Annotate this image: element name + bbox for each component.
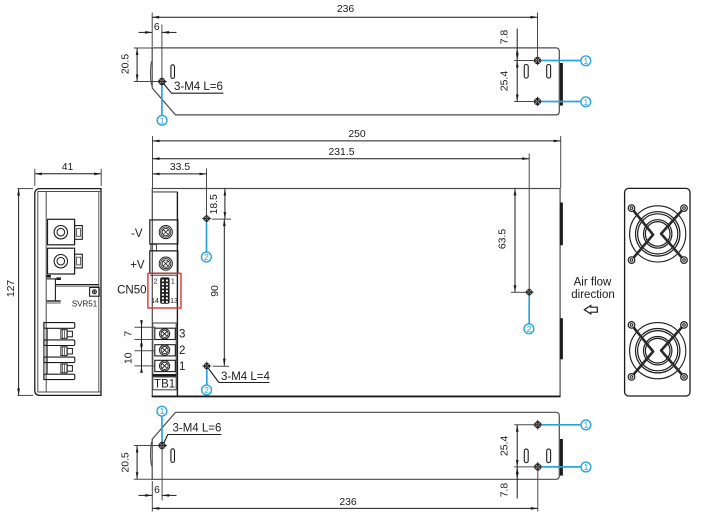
- svg-text:33.5: 33.5: [170, 162, 190, 173]
- main view: terminal column: [176, 192, 178, 396]
- svg-text:41: 41: [62, 162, 74, 173]
- callout 1 top-right upper: [542, 60, 582, 62]
- dim 236 top: [151, 13, 153, 48]
- label 3-M4 L=6 top: [164, 84, 224, 94]
- CN50 connector pins: [162, 280, 164, 282]
- dim 20.5 top: [134, 47, 152, 49]
- callout 1 top-left: [161, 86, 163, 116]
- svg-text:CN50: CN50: [117, 285, 146, 297]
- left view: inner wall lines: [37, 192, 39, 393]
- dim 7 (TB pitch): [135, 326, 156, 328]
- svg-text:-V: -V: [131, 228, 143, 240]
- svg-text:1: 1: [160, 406, 165, 416]
- dim 231.5: [528, 154, 530, 293]
- svg-text:236: 236: [339, 497, 357, 508]
- svg-text:1: 1: [584, 420, 589, 430]
- callout 1 bottom-left: [157, 406, 167, 416]
- svg-text:6: 6: [154, 485, 160, 496]
- main view: chassis outline: [152, 189, 560, 397]
- label 3-M4 L=4: [209, 369, 270, 383]
- svg-text:18.5: 18.5: [209, 194, 220, 214]
- left view: TB bolt 3: [61, 364, 67, 373]
- svg-text:direction: direction: [571, 289, 614, 301]
- svg-text:3-M4 L=6: 3-M4 L=6: [173, 423, 222, 435]
- left view: TB bolt 2: [61, 347, 67, 356]
- left view: outer case: [35, 189, 101, 396]
- svg-text:127: 127: [6, 280, 17, 298]
- svg-text:14: 14: [151, 298, 159, 305]
- left view: TB finger 2: [44, 340, 75, 346]
- left view: terminal 1 tab: [75, 226, 83, 240]
- svg-text:1: 1: [584, 462, 589, 472]
- svg-text:90: 90: [210, 285, 221, 297]
- top view: right side slots: [524, 65, 528, 79]
- left view: terminal mount dark marks: [46, 275, 51, 278]
- bottom view: dark flange right edge: [560, 439, 563, 476]
- svg-text:63.5: 63.5: [498, 229, 509, 249]
- bottom view: small slot near left screw: [171, 449, 175, 463]
- dim 236 bottom: [537, 467, 539, 512]
- bottom view: left edge lip arc: [151, 441, 153, 467]
- svg-text:6: 6: [154, 22, 160, 33]
- dim 10 (TB pitch): [135, 350, 156, 352]
- svg-text:2: 2: [154, 278, 158, 285]
- svg-text:2: 2: [204, 252, 209, 262]
- svg-text:SVR51: SVR51: [72, 300, 98, 309]
- svg-text:2: 2: [527, 324, 532, 334]
- dim 25.4 bottom: [514, 424, 541, 426]
- svg-text:25.4: 25.4: [500, 436, 511, 456]
- left view: terminal 2 tab: [75, 254, 83, 268]
- fan 2: [630, 323, 686, 379]
- svg-text:1: 1: [583, 97, 588, 107]
- svg-text:13: 13: [170, 298, 178, 305]
- dim 18.5: [212, 218, 231, 220]
- svg-text:3-M4 L=4: 3-M4 L=4: [221, 371, 271, 383]
- svg-text:+V: +V: [130, 260, 145, 272]
- svg-text:250: 250: [348, 129, 366, 140]
- bottom view: mounting screw right upper: [533, 420, 543, 430]
- top view: mounting screw right upper: [533, 56, 543, 66]
- fan panel: [625, 188, 690, 396]
- main view screw lower-left (90): [202, 362, 211, 371]
- left view: TB finger 1: [44, 323, 75, 329]
- TB1 label box: [153, 377, 176, 390]
- svg-text:2: 2: [204, 385, 209, 395]
- callout 2 upper-left: [206, 223, 208, 252]
- svg-text:231.5: 231.5: [328, 147, 354, 158]
- dim 41: [34, 169, 36, 186]
- CN50 connector body: [160, 277, 170, 303]
- top view: dark flange right edge: [560, 63, 563, 106]
- left view: TB finger 3: [44, 357, 75, 363]
- dim 250: [152, 136, 154, 188]
- svg-text:1: 1: [583, 56, 588, 66]
- svg-text:25.4: 25.4: [500, 71, 511, 91]
- bottom view: chassis outline: [152, 412, 559, 479]
- callout 1 bottom-right lower: [542, 466, 582, 468]
- TB1 block: [153, 323, 176, 377]
- svg-text:1: 1: [160, 115, 165, 125]
- dim 63.5: [511, 291, 527, 293]
- dim 127: [17, 188, 33, 190]
- top view: mounting screw left: [157, 77, 167, 87]
- left view: TB finger 4: [44, 374, 75, 379]
- SVR51 potentiometer: [90, 288, 100, 297]
- svg-text:1: 1: [171, 278, 175, 285]
- svg-text:20.5: 20.5: [121, 54, 132, 74]
- dim 33.5: [206, 169, 208, 219]
- svg-text:TB1: TB1: [154, 378, 175, 390]
- svg-text:2: 2: [179, 345, 185, 357]
- top view: chassis outline: [152, 48, 559, 115]
- svg-text:3-M4 L=6: 3-M4 L=6: [174, 81, 223, 93]
- top view: small slot near left screw: [171, 65, 175, 79]
- main view screw right (63.5/231.5): [525, 288, 534, 297]
- svg-text:20.5: 20.5: [121, 452, 132, 472]
- dim 6 top: [161, 25, 163, 82]
- callout 2 right: [528, 296, 530, 324]
- svg-text:7.8: 7.8: [500, 483, 511, 498]
- svg-text:1: 1: [179, 361, 185, 373]
- left view: TB comb spine: [43, 322, 45, 380]
- bottom view: mounting screw left: [157, 441, 167, 451]
- dim 20.5 bottom: [134, 445, 158, 447]
- dim 7.8 bottom: [516, 467, 518, 499]
- svg-text:236: 236: [337, 4, 355, 15]
- fan 1: [630, 206, 686, 262]
- svg-text:7: 7: [124, 331, 135, 337]
- svg-text:10: 10: [124, 352, 135, 364]
- svg-text:Air flow: Air flow: [574, 277, 612, 289]
- top view: mounting screw right lower: [533, 97, 543, 107]
- +V terminal block: [150, 251, 178, 273]
- callout 2 lower-left: [206, 370, 208, 385]
- label 3-M4 L=6 bottom: [164, 435, 222, 444]
- main view: dark fan flanges right edge: [560, 203, 563, 246]
- callout 1 bottom-right upper: [542, 424, 582, 426]
- svg-text:3: 3: [179, 329, 185, 341]
- bottom view: mounting screw right lower: [533, 462, 543, 472]
- dim 25.4 top: [514, 101, 541, 103]
- callout 1 top-right lower: [542, 101, 582, 103]
- left view: TB bolt 1: [61, 330, 67, 339]
- left view: SVR bracket: [47, 278, 61, 280]
- dim 90: [213, 365, 229, 367]
- left view: upper terminal 2: [48, 248, 75, 274]
- svg-text:7.8: 7.8: [500, 30, 511, 45]
- dim 6 bottom: [151, 481, 153, 512]
- main view screw upper-left (18.5/33.5): [202, 214, 211, 223]
- left view: upper terminal 1: [48, 219, 75, 245]
- dim 7.8 top: [514, 60, 541, 62]
- -V terminal block: [150, 220, 178, 244]
- bottom view: right side slots: [524, 449, 528, 463]
- nub between -V and +V: [151, 245, 157, 251]
- CN50 red outline: [148, 273, 181, 308]
- top view: left edge lip arc: [151, 61, 153, 87]
- air flow arrow: [584, 306, 597, 314]
